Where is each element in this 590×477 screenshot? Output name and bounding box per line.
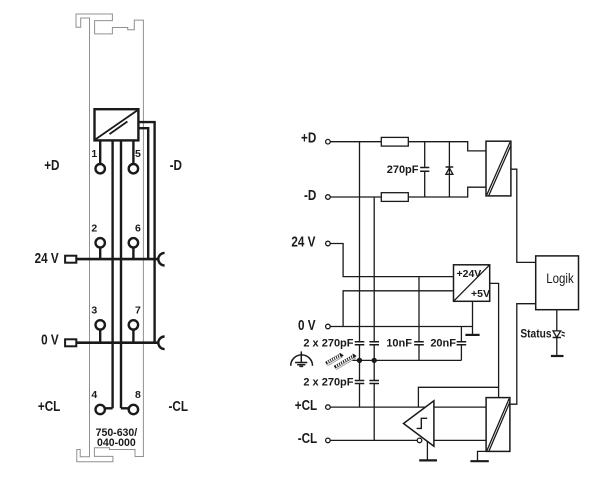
svg-text:24 V: 24 V (35, 249, 59, 266)
svg-text:-CL: -CL (298, 430, 317, 447)
svg-text:270pF: 270pF (387, 164, 419, 176)
svg-text:0 V: 0 V (41, 331, 59, 348)
svg-text:20nF: 20nF (430, 338, 456, 350)
svg-text:-CL: -CL (169, 398, 188, 415)
svg-text:+D: +D (301, 129, 317, 146)
svg-text:24 V: 24 V (291, 233, 315, 250)
svg-text:5: 5 (135, 148, 141, 160)
svg-text:3: 3 (91, 304, 97, 316)
svg-text:1: 1 (91, 148, 97, 160)
svg-text:2 x 270pF: 2 x 270pF (303, 377, 353, 389)
svg-text:-D: -D (170, 157, 183, 174)
svg-text:7: 7 (135, 304, 141, 316)
svg-text:2: 2 (91, 222, 97, 234)
svg-text:0 V: 0 V (298, 317, 316, 334)
svg-text:+5V: +5V (471, 288, 490, 300)
svg-text:Status: Status (520, 328, 551, 341)
svg-text:+CL: +CL (38, 398, 60, 415)
svg-text:+24V: +24V (457, 268, 482, 280)
svg-text:-D: -D (304, 187, 317, 204)
svg-text:+D: +D (44, 157, 60, 174)
svg-text:4: 4 (91, 389, 97, 401)
svg-text:6: 6 (135, 222, 141, 234)
svg-text:040-000: 040-000 (97, 437, 136, 449)
svg-text:+CL: +CL (295, 397, 317, 414)
svg-text:Logik: Logik (546, 271, 574, 286)
svg-text:10nF: 10nF (386, 338, 412, 350)
svg-text:8: 8 (135, 389, 141, 401)
svg-text:2 x 270pF: 2 x 270pF (303, 338, 353, 350)
